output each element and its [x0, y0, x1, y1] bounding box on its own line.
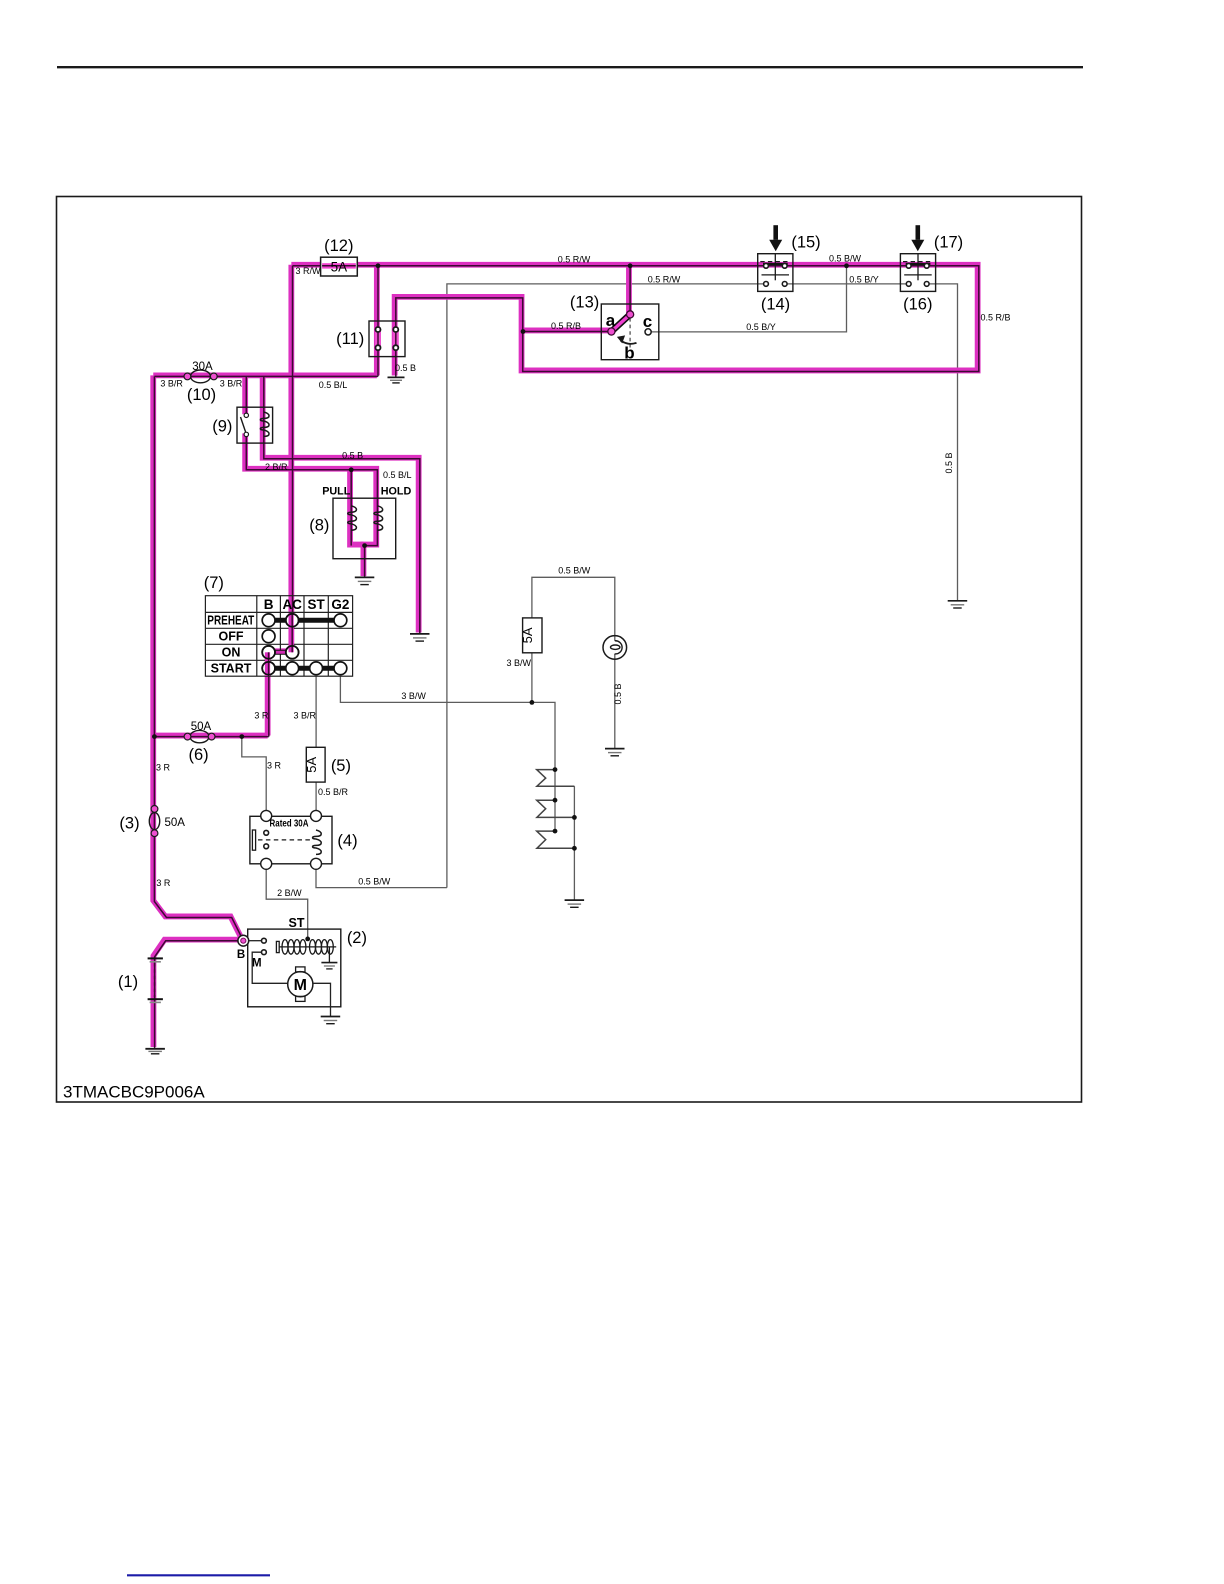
svg-text:(3): (3) [119, 814, 139, 832]
svg-text:AC: AC [282, 597, 302, 612]
connector (17)/(16) [900, 254, 935, 292]
svg-text:(9): (9) [212, 417, 232, 435]
top horizontal rule [57, 66, 1083, 68]
key switch magenta through contacts [268, 614, 292, 676]
svg-text:3 R: 3 R [254, 710, 269, 720]
svg-text:B: B [264, 597, 274, 612]
svg-text:(11): (11) [336, 330, 364, 348]
svg-text:(5): (5) [331, 757, 351, 775]
svg-text:OFF: OFF [219, 630, 244, 644]
wire core (12) to (11) [377, 266, 379, 377]
fuse (12) 5A [321, 257, 358, 276]
svg-text:3 B/R: 3 B/R [220, 379, 243, 389]
solenoid ground [328, 947, 330, 962]
wire 3 B/W branch to lamp fuse [531, 653, 533, 703]
svg-text:0.5 B/W: 0.5 B/W [558, 565, 591, 575]
svg-text:(14): (14) [761, 296, 790, 314]
svg-text:3 B/R: 3 B/R [294, 710, 317, 720]
svg-text:3 R/W: 3 R/W [296, 266, 322, 276]
solenoid plunger bar [276, 941, 279, 952]
svg-text:(2): (2) [347, 929, 367, 947]
ground under lamp [605, 749, 625, 756]
glow plug resistor 3 [537, 831, 575, 848]
svg-text:3 B/W: 3 B/W [401, 691, 426, 701]
motor armature M [288, 972, 313, 997]
svg-text:ST: ST [307, 597, 325, 612]
svg-text:0.5 R/B: 0.5 R/B [551, 321, 581, 331]
svg-text:3 B/W: 3 B/W [507, 658, 532, 668]
svg-text:(6): (6) [189, 746, 209, 764]
svg-text:(10): (10) [187, 386, 216, 404]
solenoid coil line [279, 946, 336, 948]
svg-text:(7): (7) [204, 574, 224, 592]
svg-text:0.5 R/W: 0.5 R/W [648, 274, 681, 284]
svg-text:Rated 30A: Rated 30A [270, 818, 309, 829]
wire core 50A row [154, 736, 268, 738]
ground under connector (11) [388, 377, 405, 383]
svg-text:30A: 30A [192, 361, 213, 373]
svg-text:50A: 50A [165, 817, 186, 829]
svg-text:c: c [643, 312, 652, 331]
key switch contacts [262, 614, 347, 675]
wire 2 B/W relay (4) contact to starter ST [266, 869, 308, 939]
svg-text:(4): (4) [337, 832, 357, 850]
arrow (15) [769, 225, 782, 251]
wire core battery to B [155, 941, 244, 1048]
svg-text:ON: ON [222, 646, 241, 660]
glow plug resistor 2 [537, 800, 575, 817]
wire core 3 R/W to key switch [269, 266, 293, 737]
svg-text:0.5 B/Y: 0.5 B/Y [849, 274, 879, 284]
svg-text:0.5 R/B: 0.5 R/B [981, 312, 1011, 322]
wire 3 B/R key switch ST to fuse (5) [315, 676, 317, 747]
wire highlighted 2 B/R relay (9) to solenoid (8) [245, 433, 376, 576]
wire 0.5 B/Y between connectors (14) and (16) [785, 283, 909, 285]
key switch contact bars [269, 618, 341, 623]
svg-text:PULL: PULL [322, 486, 351, 498]
wire core relay (9) coil to ground [264, 376, 420, 633]
svg-text:M: M [252, 957, 262, 969]
wire 3 R from 50A fuse node to relay (4) contact [242, 737, 266, 811]
svg-text:2 B/W: 2 B/W [277, 888, 302, 898]
svg-text:5A: 5A [304, 757, 319, 773]
wire 3 B/W key switch G2 to glow plugs [340, 676, 555, 769]
svg-text:(17): (17) [934, 233, 963, 251]
svg-text:a: a [606, 311, 616, 330]
svg-text:(1): (1) [118, 973, 138, 991]
relay (9) [237, 407, 273, 443]
svg-text:0.5 B/R: 0.5 B/R [318, 787, 349, 797]
connector (11) [369, 321, 405, 357]
fuse (3) 50A [149, 806, 159, 837]
switch (13) [601, 304, 659, 360]
motor to ground [313, 983, 331, 1016]
wire highlighted 50A fuse (6) row [153, 733, 267, 739]
svg-text:3TMACBC9P006A: 3TMACBC9P006A [63, 1083, 205, 1102]
svg-text:M: M [294, 977, 307, 994]
wire highlighted 0.5 B/L and 3 B/R horizontal row [153, 372, 377, 378]
wire 0.5 B from connector (16) to ground [927, 284, 958, 601]
solenoid (8) PULL HOLD [333, 498, 396, 559]
ground under battery [145, 1049, 165, 1054]
svg-text:ST: ST [289, 916, 305, 930]
wire core main loop [293, 266, 979, 377]
fuse (5) 5A [304, 747, 325, 782]
svg-text:HOLD: HOLD [381, 486, 412, 498]
svg-text:0.5 R/W: 0.5 R/W [558, 254, 591, 264]
svg-text:0.5 B: 0.5 B [342, 450, 363, 460]
B terminal [238, 935, 249, 946]
svg-text:0.5 B/W: 0.5 B/W [829, 253, 862, 263]
svg-text:2 B/R: 2 B/R [265, 462, 288, 472]
fuse (6) 50A [184, 730, 215, 742]
svg-text:0.5 B/W: 0.5 B/W [358, 876, 391, 886]
diagram border frame [57, 197, 1082, 1103]
wire highlighted fuse (12) to connector (11) [374, 265, 380, 376]
svg-text:5A: 5A [520, 627, 535, 643]
fuse (10) 30A [184, 370, 217, 383]
svg-text:5A: 5A [331, 259, 348, 274]
wire core 0.5 R/B [523, 331, 611, 333]
wire highlighted 3 R/W down to key switch and B column [268, 265, 292, 736]
junction dots [152, 263, 849, 941]
wire highlighted 0.5 R/B from switch (13) terminal a [522, 328, 610, 334]
wire highlighted relay (9) switch feed [242, 375, 248, 414]
svg-text:G2: G2 [331, 597, 349, 612]
relay (4) Rated 30A [250, 810, 332, 869]
wire 0.5 B lamp to ground [614, 654, 616, 748]
ground right side 0.5 B [948, 601, 968, 608]
wire glow plug return bus [573, 786, 575, 900]
key switch (7) table [205, 596, 352, 677]
svg-text:(8): (8) [309, 517, 329, 535]
wire core B/L row [154, 375, 378, 377]
wire highlighted main loop fuse (12) to connectors and back to (11) [291, 265, 977, 376]
svg-text:0.5 B: 0.5 B [613, 683, 623, 704]
svg-text:3 R: 3 R [156, 878, 171, 888]
svg-text:(16): (16) [903, 296, 932, 314]
arrow (17) [911, 225, 924, 251]
key switch contact rings over highlight [262, 614, 298, 675]
wire highlighted PULL coil branch [350, 469, 363, 545]
svg-text:0.5 B: 0.5 B [944, 452, 954, 473]
starter motor (2) [238, 929, 341, 1024]
svg-text:(12): (12) [324, 237, 353, 255]
ground 0.5 B right of (8) [410, 634, 430, 641]
battery (1) [148, 958, 163, 1002]
svg-text:3 B/R: 3 B/R [160, 379, 183, 389]
M terminal wire to motor [252, 952, 288, 983]
svg-text:0.5 B: 0.5 B [395, 363, 416, 373]
wire core feed to (13) [629, 266, 631, 315]
svg-text:PREHEAT: PREHEAT [207, 614, 254, 628]
svg-text:0.5 B/Y: 0.5 B/Y [746, 322, 776, 332]
svg-text:(15): (15) [791, 233, 820, 251]
ground under solenoid (8) [355, 577, 375, 584]
wire core PULL branch [350, 470, 352, 546]
svg-text:3 R: 3 R [267, 761, 282, 771]
wire 0.5 B/Y from switch (13) terminal c to junction [651, 266, 846, 332]
wire highlighted battery trunk 3 R [153, 375, 242, 939]
wire highlighted relay (9) coil 0.5 B to ground [263, 375, 419, 632]
svg-text:B: B [237, 949, 245, 961]
svg-text:50A: 50A [191, 721, 212, 733]
wire 0.5 B/W fuse to lamp [532, 577, 615, 641]
wire highlighted feed to switch (13) [626, 265, 632, 314]
wire highlighted battery to B terminal [153, 940, 242, 1047]
svg-text:3 R: 3 R [156, 762, 171, 772]
fuse 5A (lamp circuit) [520, 618, 542, 653]
glow plug resistor 1 [537, 770, 575, 787]
wire 0.5 B/W relay (4) coil to vertical riser [316, 869, 447, 887]
wire core 2 B/R [246, 434, 377, 577]
svg-text:0.5 B/L: 0.5 B/L [319, 380, 348, 390]
lamp (glow indicator) [603, 636, 627, 660]
wire core battery trunk [154, 376, 243, 940]
svg-text:(13): (13) [570, 294, 599, 312]
connector (15)/(14) [758, 254, 793, 292]
wire 0.5 R/W from connector (14) pin to node down-left [447, 284, 766, 888]
ground under glow plugs [565, 900, 585, 907]
svg-text:b: b [624, 344, 634, 363]
wire glow plug chain vertical [554, 770, 556, 832]
svg-text:START: START [211, 662, 252, 676]
wire core relay (9) switch feed [245, 376, 247, 415]
bottom blue underline mark [127, 1574, 270, 1576]
wire 0.5 B/R fuse (5) to relay (4) [315, 782, 317, 811]
svg-text:0.5 B/L: 0.5 B/L [383, 470, 412, 480]
